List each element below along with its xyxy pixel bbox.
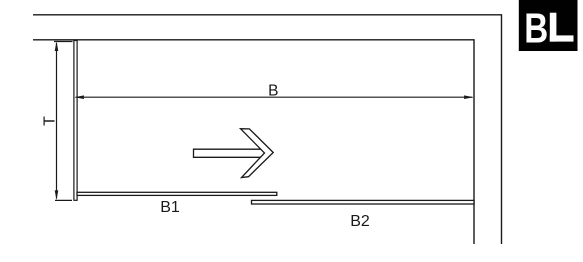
- svg-text:B2: B2: [350, 213, 370, 230]
- svg-text:B1: B1: [160, 199, 180, 216]
- svg-text:B: B: [524, 6, 548, 53]
- svg-text:B: B: [268, 83, 278, 100]
- svg-text:T: T: [42, 116, 59, 126]
